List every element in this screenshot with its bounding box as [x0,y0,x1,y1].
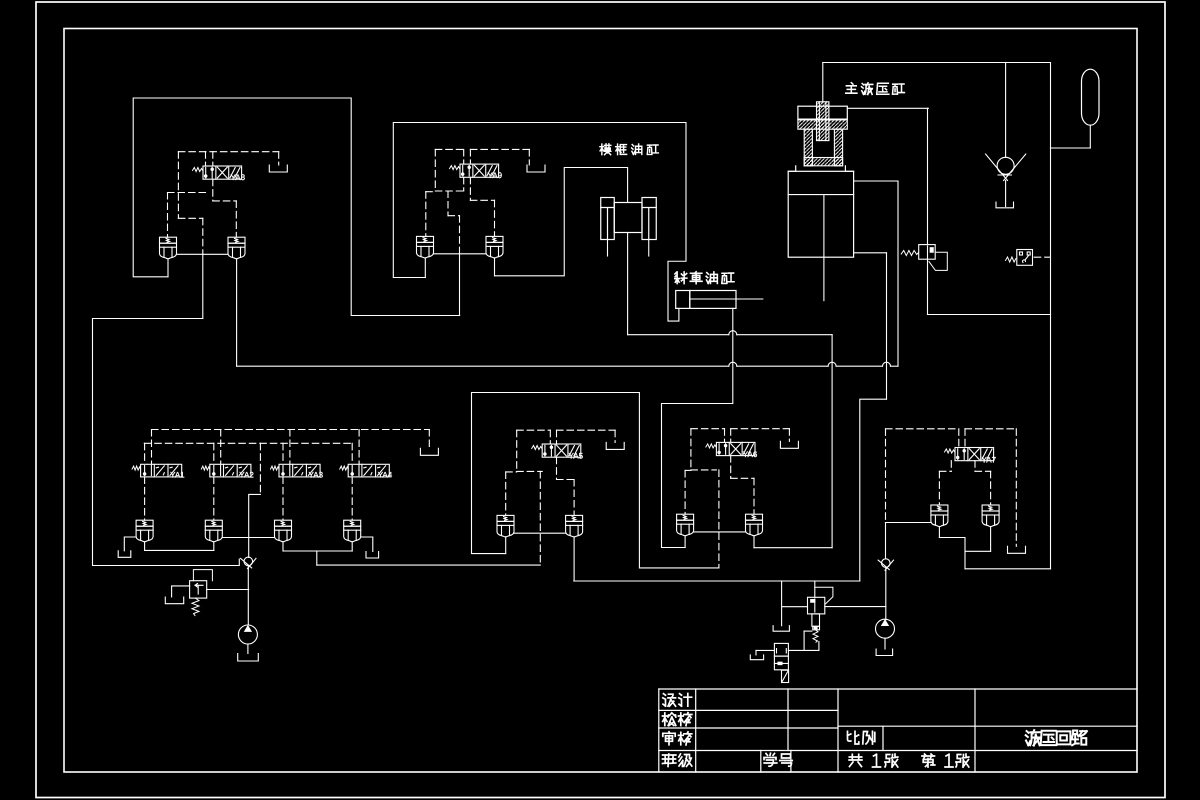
wire G2 valve bottom tap A [463,177,465,191]
pump1 check valve [241,557,256,569]
mokuang cylinder right rod [648,240,650,257]
wire G5 valve top tap B [556,430,558,444]
valve YA4 body [348,464,389,477]
valve YA6 body [716,442,755,455]
RV3 pilot hook [193,570,212,581]
text label: 审核 [663,732,692,745]
wire solenoid drop [803,631,805,650]
wire pilot to check YA3 [282,477,284,520]
wire G6 valve bottom drop [730,456,732,479]
wire G2 to liaoche cylinder [393,123,686,322]
pilot check valve G6-R [746,514,763,536]
wire G6 pilot rect left [690,429,692,470]
wire G5 pilot rect bottom [517,470,543,472]
wire G7 check L pilot drop [938,471,940,505]
wire bus B drop YA4 [351,443,353,464]
wire G2 pilot header L [435,148,463,150]
tank symbol pilot valve tank [750,655,763,660]
wire G2 mid drop upper [447,191,449,216]
text label: 班级 [663,754,692,767]
wire main cyl upper port drop to bus2 [897,181,899,366]
wire G6 R out to bus1 drop [754,547,832,549]
wire bus B pump drop [259,443,261,494]
wire pump2 suction [884,638,886,649]
wire CV3 pin [282,542,284,551]
svg-text:YA2: YA2 [239,471,254,480]
wire G1 mid down [202,254,204,318]
wire accumulator link [1051,147,1091,149]
wire main cyl lower port drop [886,253,888,399]
wire pilot valve right link [788,649,819,651]
valve YA5 body [542,444,581,457]
wire bus B drop YA1 [144,443,146,464]
valve YA7 body [955,448,994,461]
wire bus1 drop at 832 [831,335,833,548]
wire G5 valve top tap A [549,430,551,444]
wire G2 check R pilot drop [494,200,496,236]
pilot check valve G5-L [497,515,514,537]
wire pilot valve left link [756,649,774,651]
tank4 elbow [361,537,373,552]
wire G2 pilot header R [470,148,529,150]
wire G6 valve top tap B [730,429,732,443]
main cylinder centerline [823,195,825,301]
text label: 校核 [663,713,692,726]
tank symbol RV2 tank [773,626,789,632]
pilot check valve G5-R [566,515,583,537]
wire G1 check L out [167,259,169,277]
wire G1 pilot left drop [177,152,179,219]
tank symbol G5 tank [606,442,624,449]
wire RV2 feed drop [814,581,816,597]
pilot check valve G6-L [677,514,694,536]
wire G7 check L out [938,527,940,538]
wire G2 pilot rect left [434,149,436,191]
wire CV3-CV4 link [283,550,352,552]
text label: 学号 [764,753,792,766]
text label: 1 (sheet no) [945,754,953,767]
main cylinder neck [788,166,853,172]
text label: 模框油缸 [600,144,658,155]
wire mokuang bottom port down to bus1 [627,233,629,335]
wire G6 check R pilot header [731,477,754,479]
pilot check valve G2-L [417,236,434,258]
mokuang cylinder left rod [607,240,609,257]
wire G7 valve bottom drop L [950,461,952,472]
wire G2 check R pilot header [470,199,494,201]
wire G7 tank drop [1015,429,1017,547]
wire G6 check L out [684,536,686,548]
tank symbol G1 tank [269,165,287,172]
wire top bus [823,62,1051,64]
RV3 tank elbow [172,586,190,597]
pump1 riser [249,494,261,557]
wire G7 outputs join [939,538,965,569]
text label: 张 [956,754,969,767]
spring of valve YA3 [271,466,280,470]
wire G2 valve top tap A [463,149,465,164]
wire G6 pilot header R [731,428,790,430]
wire G5 check L pilot drop [505,472,507,516]
spring of valve YA2 [201,466,210,470]
wire G7 supply to check L side [886,522,931,524]
svg-text:YA6: YA6 [743,450,758,459]
wire pump1 inlet line [247,569,249,625]
wire pilot valve tank drop [755,650,757,655]
wire G2 to mokuang cylinder top [495,168,628,276]
valve YA3 body [279,464,320,477]
pump P2 [876,619,895,638]
tank symbol prefill tank [996,202,1014,208]
svg-text:YA5: YA5 [569,452,584,461]
wire G5 check R out [573,537,575,581]
wire G5 check R pilot drop [573,480,575,516]
wire G5 mid pilot drop [539,471,541,565]
wire liaoche right port down [732,308,734,403]
spring of valve YA1 [132,466,141,470]
pilot check valve below YA4 [344,520,361,542]
relief valve RV2 [808,597,825,614]
liaoche cylinder rod [690,298,763,300]
prefill check valve [986,154,1026,181]
wire bus A drop YA3 [289,430,291,465]
main cylinder barrel [788,171,853,257]
valve YA1 body [141,464,182,477]
wire G2 valve bottom drop B [469,177,471,200]
pilot check valve G7-R [982,505,999,527]
main cylinder cup left wall [804,129,812,166]
tank1 elbow [124,537,136,551]
title block grid [659,689,1137,772]
wire G5 pilot header R [557,429,616,431]
wire G5 supply loop to G6 mid [472,393,719,568]
wire G1 mid to pump line [93,319,240,566]
wire G6 mid pilot drop [718,470,720,568]
valve YA8 body [203,166,242,179]
wire G7 valve top tap B [964,429,966,448]
mokuang cylinder body [614,203,642,233]
wire G7 pilot header R [965,428,1016,430]
wire RV2 solenoid left link [804,630,812,632]
wire bus A drop YA2 [220,430,222,465]
wire spring drop [818,642,820,651]
pressure switch [1017,250,1033,266]
spring of valve YA8 [193,168,204,172]
main cylinder cup bottom [804,158,842,166]
wire G1 check L pilot drop [167,193,169,238]
wire G6 tank drop [788,429,790,442]
wire pilot bus B (supply) [144,442,352,444]
svg-text:YA7: YA7 [982,455,997,464]
liaoche cylinder body [690,291,736,309]
wire G1 loop to G2 mid [133,98,459,316]
wire G1 mid pilot drop [202,218,204,254]
wire G6 check L pilot drop [684,470,686,514]
relief RV1 spring [901,251,918,256]
wire tap to G5 supply [316,551,318,565]
RV3 spring [192,598,199,616]
wire bus A drop YA4 [358,430,360,465]
wire G1 valve bottom drop [212,179,214,201]
relief valve RV3 [190,581,207,598]
main cylinder top cap [798,106,847,119]
wire RV2 right link to pump2 line [825,606,886,608]
wire main cyl lower port [854,252,887,254]
wire G6 pilot rect bottom [691,469,717,471]
RV2 spring [813,630,818,642]
pump P1 [238,625,257,644]
wire G1 valve top tap B [212,152,214,166]
wire G5 tank drop [614,430,616,442]
wire main cyl upper port [854,180,898,182]
wire G5 check link [514,532,566,534]
RV2 pilot hook [815,587,833,604]
tank symbol G6 tank [780,441,798,448]
wire G1 pilot top header [178,151,278,153]
pilot check valve below YA2 [205,520,222,542]
wire pump1 suction [247,644,249,654]
pilot check valve G1-L [160,237,177,259]
pressure switch spring [1006,257,1016,262]
spring of valve YA7 [945,449,955,453]
wire bus A drop YA1 [151,430,153,465]
wire G1 tank drop [278,152,280,165]
wire G2 check L pilot drop [425,192,427,237]
main cylinder barrel divider [788,194,853,196]
wire pump2 riser upper [885,523,887,559]
wire G7 check R out [990,527,992,552]
wire line to G5 mid [317,564,541,566]
mokuang cylinder left cap [601,198,615,240]
mokuang cylinder right cap [642,198,656,240]
wire relief RV1 inlet [927,108,929,244]
wire prefill outlet [1005,181,1007,207]
wire G1 pilot jog [178,217,202,219]
wire G6 pilot header L [691,428,725,430]
wire G2 valve top tap B [469,149,471,164]
wire bus B drop YA3 [282,443,284,464]
text label: 料车油缸 [675,272,734,284]
wire bus B drop YA2 [213,443,215,464]
wire RV3 feed link [207,589,249,591]
wire CV4 pin [351,542,353,551]
tank symbol pump2 tank [876,649,893,656]
wire G2 check L out [424,258,426,278]
text label: 张 [885,754,898,767]
wire G2 check L jog [426,191,436,193]
wire G5 pilot rect left [516,430,518,471]
wire G6 check R out [753,536,755,548]
wire relief outlet to right bus [928,314,1051,316]
tank symbol G7 tank [1008,546,1026,553]
tank symbol bus A tank [420,448,438,455]
wire G2 check link [434,253,487,255]
wire G7 R link [965,550,991,552]
wire RV2 drain drop [781,581,783,626]
wire G6 check L jog [685,469,691,471]
wire main cylinder rod top line [822,63,824,102]
wire G7 join to right bus [965,568,1051,570]
text label: 液压回路 [1026,730,1087,745]
tank symbol RV3 tank [165,597,183,604]
wire pilot to check YA4 [351,477,353,520]
liaoche cylinder cap [676,291,690,309]
spring of valve YA6 [706,444,716,448]
wire G7 valve bottom drop R [974,461,976,472]
spring of valve YA5 [532,446,542,450]
tank symbol pump1 tank [238,654,259,662]
main cylinder cup right wall [834,129,842,166]
wire G1 check R out to bus2 [236,259,238,366]
wire pilot bus A (return) [152,429,430,431]
pilot check valve G2-R [486,236,503,258]
bus bus2 [237,362,898,366]
RV2 solenoid box [813,626,820,630]
tank symbol tank below CV1 [118,551,131,558]
spring of valve YA4 [340,466,349,470]
wire G7 supply dashed drop [885,429,887,523]
wire long line G5 to relief RV2 and main cyl [574,580,860,582]
wire G6 check R pilot drop [753,478,755,514]
main cylinder gland (hatched band) [798,120,847,129]
wire G2 mid jog [448,215,460,217]
wire main cyl cap line to relief [847,107,928,109]
wire accumulator stem [1089,125,1091,148]
text label: 共 [849,754,862,766]
wire G6 valve top tap A [724,429,726,443]
wire lower port jog down [860,399,887,581]
valve YA9 body [460,164,499,177]
text label: 设计 [663,694,692,707]
wire G2 check R out [494,258,496,276]
wire bus A tank drop [428,430,430,449]
pilot check valve below YA1 [136,520,153,542]
pilot check valve below YA3 [275,520,292,542]
wire prefill valve inlet [1005,63,1007,158]
pump2 check valve [878,559,893,571]
wire G7 check R pilot drop [990,471,992,505]
valve YA2 body [210,464,251,477]
wire RV2 left link [782,606,808,608]
wire right bus vertical [1050,63,1052,569]
wire G6 check link [694,531,746,533]
wire CV2 pin [213,542,215,551]
accumulator [1082,69,1100,125]
pilot check valve G7-L [931,505,948,527]
text label: 1 (sheets total) [873,754,881,767]
wire G2 mid pilot drop [459,216,461,254]
wire G7 check L pilot header [939,470,951,472]
bus bus1 (mokuang bottom to group6 R) [628,331,833,335]
wire G1 valve top tap A [205,152,207,166]
wire G2 pilot rect bottom [435,190,463,192]
wire G5 valve bottom drop [556,457,558,479]
spring of valve YA9 [450,166,460,170]
wire G1 check R pilot drop [235,201,237,237]
text label: 比例 [848,731,875,744]
wire pilot to check YA1 [144,477,146,520]
wire G1 check R pilot header [213,200,237,202]
wire pump2 riser lower [885,570,887,620]
wire pressure switch pilot line [1034,256,1050,258]
tank symbol tank after CV4 [366,552,379,559]
RV2 plunger [812,614,820,626]
wire G6 to liaoche port [662,404,733,548]
wire G7 check R pilot header [975,470,991,472]
wire CV1-CV2 link [145,549,214,551]
pilot valve V8 [774,643,788,682]
wire G2 mid down [459,254,461,316]
wire G1 check link [177,253,229,255]
svg-text:YA8: YA8 [231,173,246,182]
tank symbol G2 tank [527,165,545,172]
wire relief RV1 outlet [927,259,929,314]
wire G5 check L out [505,537,507,554]
relief RV1 pilot hook [929,252,947,270]
wire pilot to check YA2 [213,477,215,520]
wire G7 valve top tap A [958,429,960,448]
main cylinder plunger rod (hatched) [817,102,829,141]
text label: 主液压缸 [846,83,905,95]
wire G5 check L jog [506,471,517,473]
text label: 第 [922,754,935,767]
wire G2 tank drop [528,149,530,165]
wire CV2-CV3 link [222,537,274,539]
svg-text:YA3: YA3 [309,471,324,480]
pilot check valve G1-R [228,237,245,259]
svg-text:YA4: YA4 [378,471,393,480]
wire CV1 pin [144,542,146,551]
svg-text:YA9: YA9 [488,171,503,180]
relief valve RV1 [919,245,936,260]
wire G5 check R pilot header [557,479,575,481]
wire G5 pilot header L [517,429,551,431]
wire G1 pilot mid header [168,192,206,194]
svg-text:YA1: YA1 [170,471,185,480]
wire G7 pilot header L [886,428,959,430]
